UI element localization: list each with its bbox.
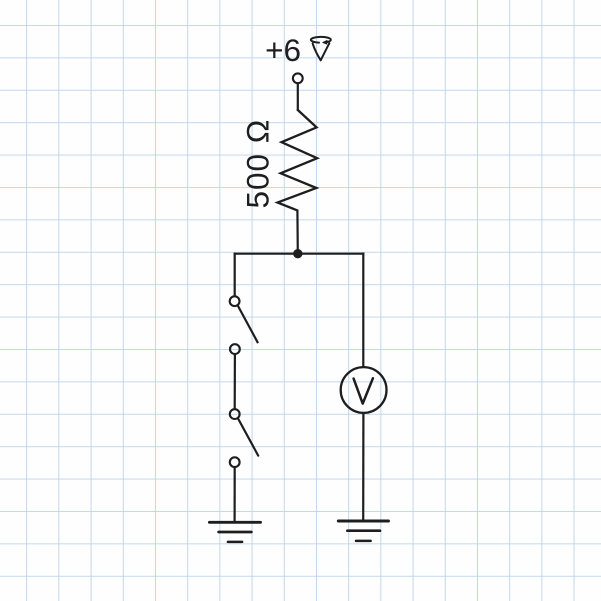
switch SW2 top terminal <box>230 409 240 419</box>
horizontal wire bus <box>234 253 365 255</box>
ground G2 (right) <box>338 521 388 541</box>
wire SW2 to ground <box>234 467 236 521</box>
wire right drop to voltmeter <box>362 253 364 368</box>
switch SW1 lever <box>238 306 258 343</box>
switch SW2 bottom terminal <box>230 457 240 467</box>
switch SW2 lever <box>238 419 258 456</box>
terminal circle (+6V supply node) <box>293 73 303 83</box>
wire voltmeter to ground <box>362 413 364 522</box>
voltmeter VM1 circle <box>341 367 387 413</box>
junction node dot <box>293 249 302 258</box>
voltmeter VM1 letter V <box>354 378 373 403</box>
resistor R1 zigzag <box>278 110 318 210</box>
wire terminal to resistor <box>297 84 299 111</box>
switch SW1 bottom terminal <box>230 344 240 354</box>
wire resistor to junction <box>296 210 299 254</box>
unit glyph V (volts, hand-drawn V with rotation swirl) <box>311 37 331 60</box>
ground G1 (left) <box>209 522 260 542</box>
switch SW1 top terminal <box>230 296 240 306</box>
wire left drop to switch SW1 <box>234 253 236 297</box>
svg-text:+6: +6 <box>265 32 301 68</box>
svg-text:500 Ω: 500 Ω <box>240 119 276 209</box>
wire SW1 to SW2 <box>234 354 236 409</box>
